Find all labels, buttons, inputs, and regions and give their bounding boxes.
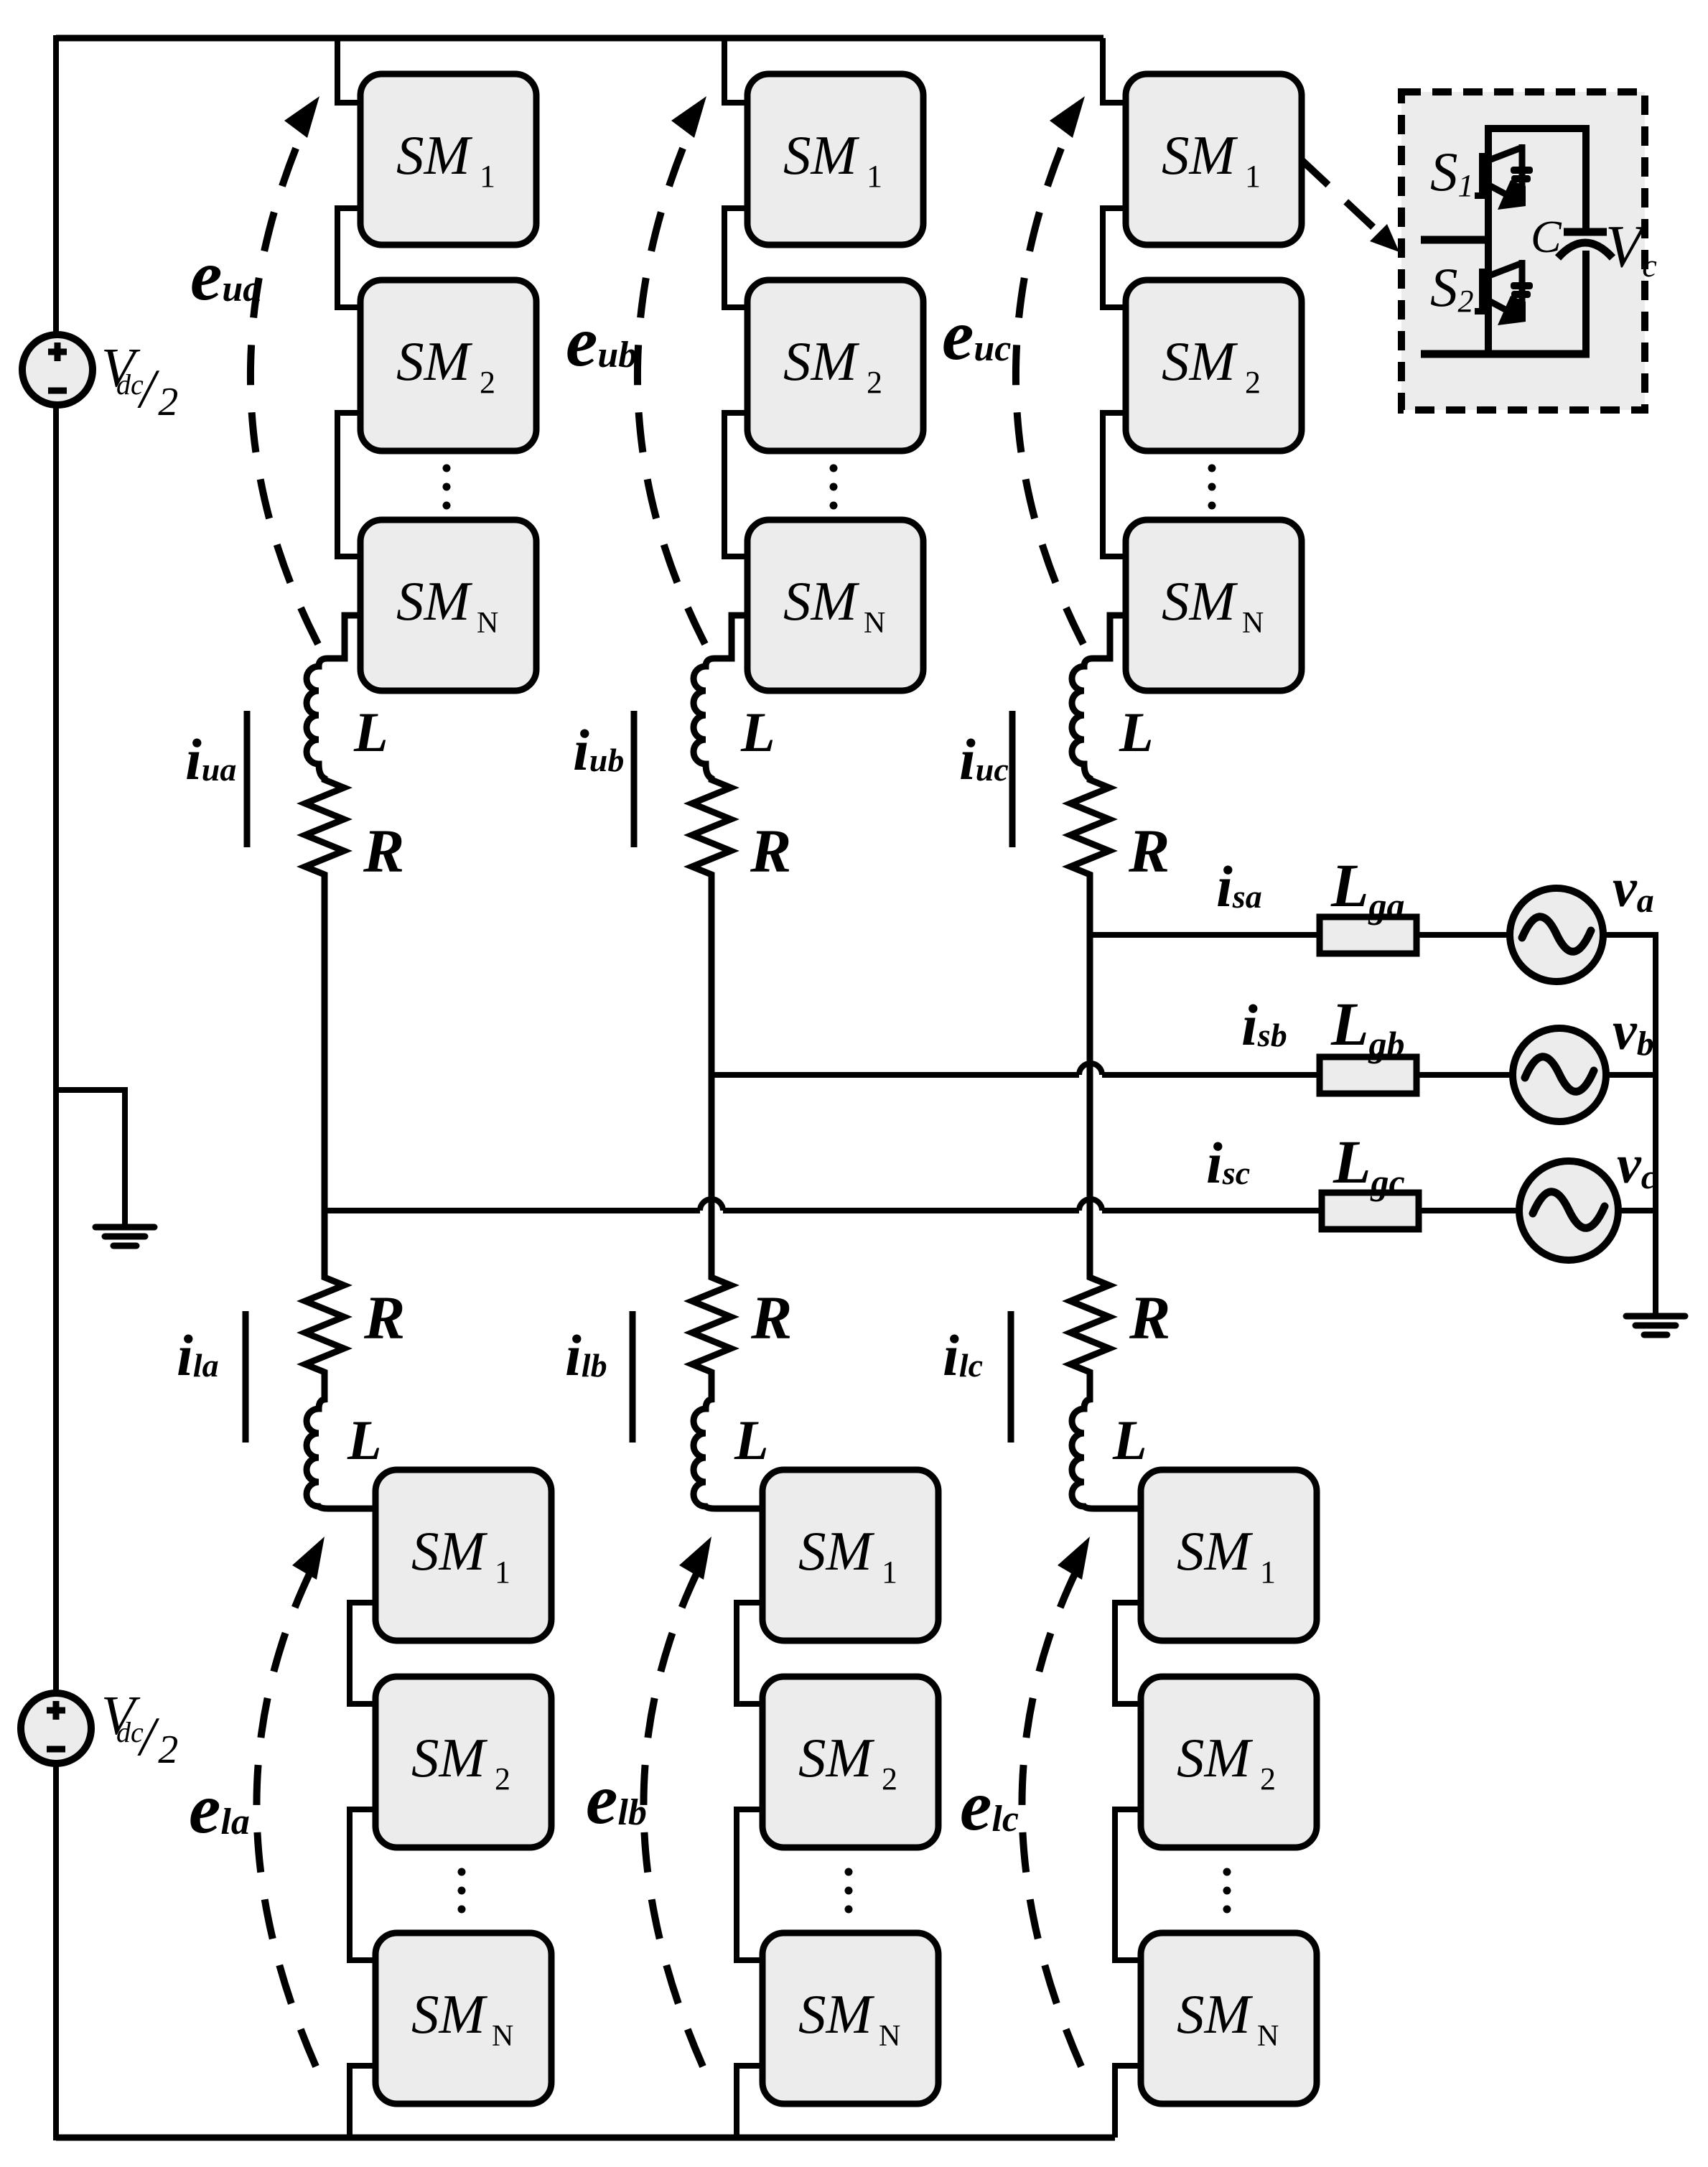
wire: left dc rail middle [53,404,59,1694]
ac source va [1510,888,1603,982]
wire: Lgc to vc [1419,1208,1520,1213]
wire: bridge left rail [1485,125,1492,354]
svg-text:C: C [1531,211,1562,262]
ac source vb [1513,1028,1606,1122]
arrowhead: submodule detail pointer [1370,224,1399,252]
wire: top dc bus [56,35,1103,42]
wire: vb to right bus [1605,1072,1657,1078]
wire: bridge bottom [1421,350,1590,358]
ac source vc [1519,1161,1618,1260]
grid inductor Lgc [1322,1193,1419,1229]
dc source Vdc/2 (upper) [22,335,93,405]
grid inductor Lgb [1320,1057,1417,1094]
wire hop over phase c arm [1079,1063,1102,1075]
capacitor C curved plate [1558,243,1613,258]
ac line phase a (from phase c leg node) [1090,932,1320,938]
phase b converter leg [633,38,938,2138]
phase a converter leg [246,38,551,2138]
phase c converter leg [1011,38,1317,2138]
wire hop over phase c arm [1079,1199,1102,1211]
wire: Lgb to vb [1417,1072,1513,1078]
ground (dc midpoint) [95,1227,154,1246]
switch S2 (IGBT with diode) [1475,260,1533,325]
dc source Vdc/2 (lower) [21,1693,91,1763]
wire: vc to right bus [1617,1208,1657,1213]
capacitor C top plate [1564,228,1607,236]
wire: left dc rail upper [53,35,59,335]
grid inductor Lga [1320,917,1417,954]
ac line phase b (from phase b leg node) [711,1072,1079,1078]
wire: submodule mid terminal [1421,236,1488,244]
switch S1 (IGBT with diode) [1475,144,1533,210]
wire: va to right bus [1602,932,1657,938]
wire hop over phase b arm [700,1199,723,1211]
wire: right grid bus [1653,932,1658,1313]
submodule detail box (dashed) [1401,92,1645,410]
wire: dc midpoint ground stub [56,1090,125,1224]
ac line phase c (from phase a leg node) [325,1208,700,1213]
wire: bottom dc bus [56,2135,1115,2141]
dashed arrow: SM1 phase c to submodule detail [1301,159,1382,236]
wire: Lga to va [1417,932,1511,938]
wire: bridge top [1488,129,1586,232]
wire: capacitor to bridge bottom [1582,251,1590,354]
wire: left dc rail lower [53,1763,59,2140]
ground (grid neutral) [1626,1316,1685,1335]
